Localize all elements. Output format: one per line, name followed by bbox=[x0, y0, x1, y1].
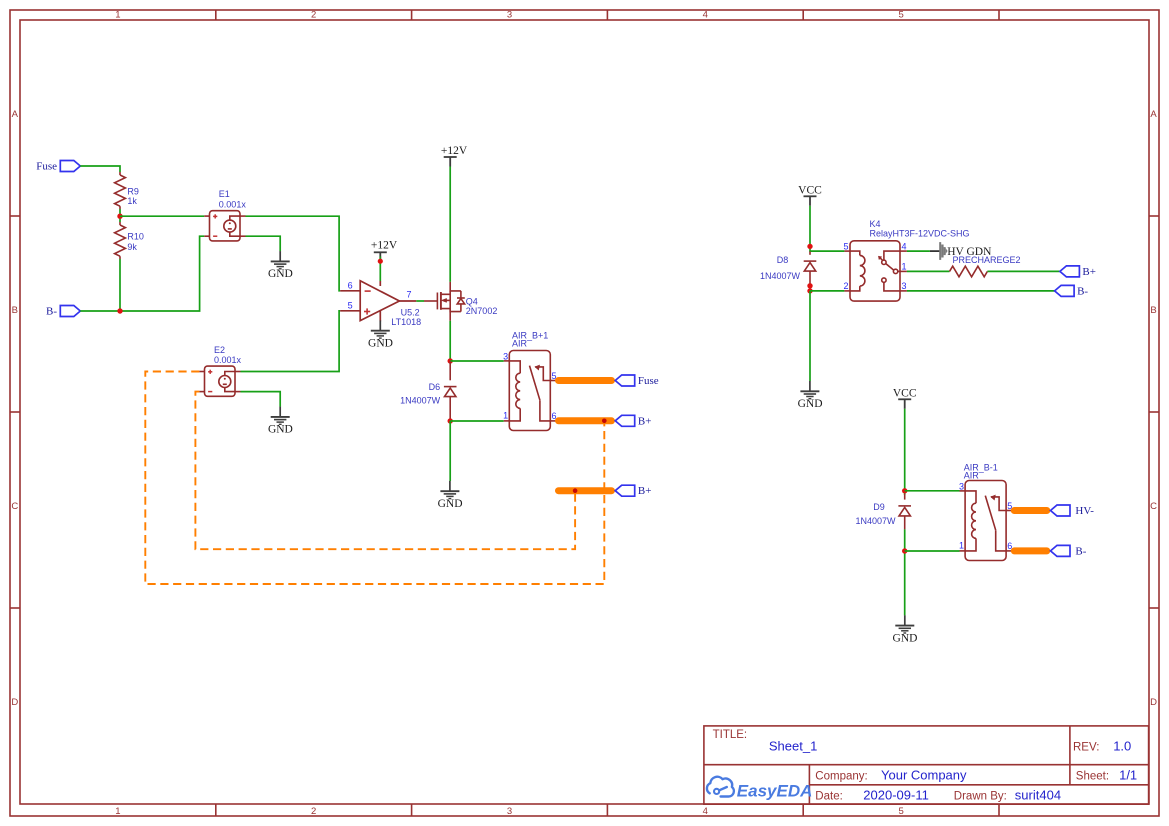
svg-text:9k: 9k bbox=[127, 242, 137, 252]
svg-text:B-: B- bbox=[1075, 545, 1086, 557]
thick wire relay pin 5 to Fuse port bbox=[559, 377, 612, 384]
wire Fuse port to R9 bbox=[80, 166, 120, 172]
svg-text:3: 3 bbox=[902, 281, 907, 291]
wire node to K4 pin 2 bbox=[810, 290, 844, 292]
svg-text:VCC: VCC bbox=[798, 185, 822, 197]
svg-text:B+: B+ bbox=[638, 485, 652, 497]
svg-text:5: 5 bbox=[843, 241, 848, 251]
svg-text:GND: GND bbox=[368, 337, 393, 349]
wire node to relay pin 3 bbox=[450, 360, 504, 362]
svg-text:+12V: +12V bbox=[441, 145, 468, 157]
svg-text:B: B bbox=[12, 305, 18, 316]
svg-text:Company:: Company: bbox=[815, 771, 867, 783]
svg-text:B-: B- bbox=[46, 305, 57, 317]
label AIR_B+1 AIR bbox=[512, 331, 548, 349]
svg-text:B+: B+ bbox=[638, 415, 652, 427]
svg-text:+12V: +12V bbox=[371, 240, 398, 252]
svg-text:1: 1 bbox=[902, 262, 907, 272]
node D6 / relay pin 1 bbox=[448, 418, 453, 423]
port B+ (right, relay) bbox=[615, 415, 651, 427]
transistor Q4 2N7002 bbox=[424, 282, 465, 321]
wire junction to E1 + input bbox=[120, 215, 204, 217]
svg-text:TITLE:: TITLE: bbox=[713, 729, 748, 741]
node D9/pin1 bbox=[902, 548, 907, 553]
svg-text:AIR: AIR bbox=[512, 339, 528, 349]
ground GND (op-amp) bbox=[368, 320, 393, 349]
svg-text:AIR: AIR bbox=[964, 470, 980, 480]
svg-text:7: 7 bbox=[407, 290, 412, 300]
svg-text:1N4007W: 1N4007W bbox=[760, 271, 801, 281]
svg-text:A: A bbox=[1150, 109, 1157, 120]
svg-text:1N4007W: 1N4007W bbox=[855, 516, 896, 526]
frame row labels bbox=[11, 109, 1157, 708]
port B+ (K4) bbox=[1060, 266, 1096, 278]
node VCC/D8 bbox=[807, 244, 812, 249]
svg-text:1/1: 1/1 bbox=[1119, 768, 1137, 783]
ground GND (E1) bbox=[268, 251, 293, 280]
svg-text:D: D bbox=[1150, 697, 1157, 708]
label K4 RelayHT3F-12VDC-SHG bbox=[870, 219, 970, 239]
thick wire relay pin 6 to B- port bbox=[1014, 547, 1047, 554]
svg-text:5: 5 bbox=[898, 10, 903, 21]
port B- (left) bbox=[46, 305, 80, 317]
svg-text:D9: D9 bbox=[873, 502, 885, 512]
title block bbox=[704, 726, 1149, 804]
port Fuse (left) bbox=[36, 160, 80, 172]
wire VCC down to D9 bbox=[904, 409, 906, 495]
port B- (K4) bbox=[1055, 285, 1089, 297]
svg-text:1.0: 1.0 bbox=[1113, 739, 1131, 754]
power VCC (K4) bbox=[798, 185, 822, 206]
wire K4 pin 1 to resistor bbox=[907, 270, 950, 272]
svg-text:K4: K4 bbox=[870, 219, 881, 229]
label AIR_B-1 AIR bbox=[964, 463, 998, 481]
port B- (AIR_B-1) bbox=[1051, 545, 1087, 557]
wire op-amp out to Q4 gate bbox=[416, 300, 424, 302]
svg-text:GND: GND bbox=[268, 424, 293, 436]
wire +12V to op-amp V+ bbox=[379, 257, 381, 282]
svg-text:Drawn By:: Drawn By: bbox=[954, 790, 1007, 802]
svg-text:5: 5 bbox=[348, 300, 353, 310]
svg-text:1: 1 bbox=[115, 10, 120, 21]
svg-text:REV:: REV: bbox=[1073, 742, 1099, 754]
relay K4 RelayHT3F-12VDC-SHG bbox=[844, 241, 907, 301]
svg-text:0.001x: 0.001x bbox=[219, 199, 247, 209]
node junction B-/R10 bbox=[117, 308, 122, 313]
svg-text:2: 2 bbox=[311, 10, 316, 21]
node on B+ thick wire bbox=[602, 419, 607, 424]
node junction R9/R10/E1 bbox=[117, 214, 122, 219]
wire node to relay pin 1 (AIR_B-1) bbox=[905, 550, 960, 552]
wire E2 output to op-amp pin 5 bbox=[241, 311, 341, 372]
port HV- bbox=[1051, 505, 1095, 517]
dashed feedback wire E2- to B+ sense node bbox=[195, 392, 575, 550]
thick wire B+ sense bbox=[559, 487, 612, 494]
power +12V (Q4 drain) bbox=[441, 145, 468, 167]
svg-text:E1: E1 bbox=[219, 189, 230, 199]
power +12V (op-amp) bbox=[371, 240, 398, 262]
label R10 9k bbox=[127, 232, 144, 252]
title block REV bbox=[1073, 739, 1131, 754]
svg-text:Date:: Date: bbox=[815, 790, 843, 802]
svg-text:D6: D6 bbox=[429, 382, 441, 392]
svg-text:2: 2 bbox=[843, 281, 848, 291]
svg-text:D: D bbox=[11, 697, 18, 708]
svg-text:5: 5 bbox=[898, 806, 903, 817]
dependent source E1 bbox=[204, 211, 245, 241]
svg-text:D8: D8 bbox=[777, 255, 789, 265]
svg-text:1N4007W: 1N4007W bbox=[400, 396, 441, 406]
svg-text:VCC: VCC bbox=[893, 388, 917, 400]
label E1 0.001x bbox=[219, 189, 247, 209]
wire R10 to B- rail bbox=[119, 259, 121, 311]
svg-text:surit404: surit404 bbox=[1015, 787, 1061, 802]
label D8 1N4007W bbox=[760, 255, 801, 281]
svg-text:3: 3 bbox=[507, 806, 512, 817]
dependent source E2 bbox=[199, 366, 240, 396]
frame column labels bbox=[115, 10, 903, 817]
wire D8 node to GND bbox=[809, 291, 811, 381]
wire D6 node to GND bbox=[449, 421, 451, 481]
svg-text:Sheet:: Sheet: bbox=[1076, 771, 1109, 783]
svg-text:PRECHAREGE2: PRECHAREGE2 bbox=[953, 255, 1021, 265]
svg-text:6: 6 bbox=[348, 280, 353, 290]
svg-text:2N7002: 2N7002 bbox=[466, 306, 498, 316]
wire D9 to pin1 node bbox=[904, 529, 906, 615]
svg-text:Your Company: Your Company bbox=[881, 768, 967, 783]
wire B- rail bbox=[80, 236, 204, 311]
svg-text:4: 4 bbox=[703, 806, 708, 817]
diode D8 1N4007W bbox=[804, 252, 817, 287]
svg-text:A: A bbox=[12, 109, 19, 120]
svg-text:RelayHT3F-12VDC-SHG: RelayHT3F-12VDC-SHG bbox=[870, 229, 970, 239]
svg-text:HV-: HV- bbox=[1075, 505, 1094, 517]
wire E1 minus output to GND bbox=[246, 236, 281, 251]
svg-text:3: 3 bbox=[503, 351, 508, 361]
svg-text:1k: 1k bbox=[127, 196, 137, 206]
wire +12V to Q4 drain bbox=[449, 167, 451, 282]
node K4 pin 2 branch bbox=[807, 288, 812, 293]
net flag HV GDN bbox=[939, 242, 947, 260]
svg-text:B+: B+ bbox=[1082, 266, 1096, 278]
label E2 0.001x bbox=[214, 345, 242, 365]
thick wire relay pin 6 to B+ port bbox=[559, 417, 612, 424]
wire VCC down to D8/K4 bbox=[809, 206, 811, 252]
svg-text:1: 1 bbox=[959, 540, 964, 550]
ground GND (AIR_B-1) bbox=[893, 615, 918, 644]
power VCC (AIR_B-1) bbox=[893, 388, 917, 409]
node D8 anode bbox=[807, 283, 812, 288]
label D6 1N4007W bbox=[400, 382, 441, 406]
svg-text:1: 1 bbox=[503, 410, 508, 420]
node on B+ sense wire bbox=[573, 488, 578, 493]
title block TITLE bbox=[713, 729, 818, 754]
svg-text:4: 4 bbox=[703, 10, 708, 21]
svg-text:B-: B- bbox=[1077, 285, 1088, 297]
svg-text:GND: GND bbox=[798, 398, 823, 410]
node Q4 source / D6 / relay pin 3 bbox=[448, 358, 453, 363]
wire node to K4 pin 5 bbox=[810, 250, 844, 252]
svg-text:Fuse: Fuse bbox=[36, 160, 57, 172]
node VCC/D9/pin3 bbox=[902, 488, 907, 493]
svg-text:2: 2 bbox=[311, 806, 316, 817]
relay AIR_B+1 AIR bbox=[504, 351, 558, 431]
wire resistor to B+ port bbox=[987, 270, 1060, 272]
diode D9 1N4007W bbox=[898, 494, 911, 529]
svg-text:Sheet_1: Sheet_1 bbox=[769, 738, 817, 753]
node on op-amp supply bbox=[378, 259, 383, 264]
op-amp U5.2 LT1018 bbox=[340, 281, 416, 322]
resistor PRECHAREGE2 bbox=[950, 266, 988, 277]
ground GND (D6) bbox=[438, 481, 463, 510]
svg-text:3: 3 bbox=[959, 481, 964, 491]
title block Company row bbox=[815, 768, 1137, 783]
wire K4 pin 3 to B- port bbox=[907, 290, 1055, 292]
label D9 1N4007W bbox=[855, 502, 896, 526]
resistor R9 bbox=[115, 172, 126, 209]
wire Q4 source down to relay node bbox=[449, 321, 451, 361]
ground GND (K4) bbox=[798, 381, 823, 410]
label R9 1k bbox=[127, 186, 139, 206]
svg-text:GND: GND bbox=[893, 632, 918, 644]
svg-text:EasyEDA: EasyEDA bbox=[737, 782, 813, 801]
svg-text:R9: R9 bbox=[127, 186, 139, 196]
svg-text:LT1018: LT1018 bbox=[391, 317, 421, 327]
svg-text:E2: E2 bbox=[214, 345, 225, 355]
wire node to relay pin 1 bbox=[450, 420, 504, 422]
svg-text:Fuse: Fuse bbox=[638, 375, 659, 387]
svg-text:2020-09-11: 2020-09-11 bbox=[863, 787, 929, 802]
svg-text:C: C bbox=[1150, 501, 1157, 512]
thick wire relay pin 5 to HV- port bbox=[1014, 507, 1047, 514]
svg-text:0.001x: 0.001x bbox=[214, 355, 242, 365]
svg-text:B: B bbox=[1150, 305, 1156, 316]
svg-text:GND: GND bbox=[268, 268, 293, 280]
diode D6 1N4007W bbox=[444, 361, 457, 421]
title block Date row bbox=[815, 787, 1061, 802]
port B+ (right, sense) bbox=[615, 485, 651, 497]
wire K4 pin 4 to HV GDN bbox=[907, 250, 930, 252]
wire R9 to R10 bbox=[119, 209, 121, 222]
ground GND (E2) bbox=[268, 407, 293, 436]
label U5.2 LT1018 bbox=[391, 308, 421, 327]
port Fuse (right) bbox=[615, 375, 659, 387]
label Q4 2N7002 bbox=[466, 297, 498, 316]
svg-text:GND: GND bbox=[438, 498, 463, 510]
resistor R10 bbox=[115, 222, 126, 259]
svg-text:1: 1 bbox=[115, 806, 120, 817]
relay AIR_B-1 AIR bbox=[960, 481, 1014, 561]
svg-text:3: 3 bbox=[507, 10, 512, 21]
svg-text:R10: R10 bbox=[127, 232, 144, 242]
svg-text:4: 4 bbox=[902, 241, 907, 251]
wire E1 output to op-amp pin 6 bbox=[246, 216, 341, 291]
svg-text:C: C bbox=[11, 501, 18, 512]
dashed feedback wire E2+ to B+ node bbox=[145, 372, 604, 585]
wire E2 minus output to GND bbox=[241, 392, 281, 407]
EasyEDA logo bbox=[707, 777, 734, 797]
wire node to relay pin 3 (AIR_B-1) bbox=[905, 490, 960, 492]
